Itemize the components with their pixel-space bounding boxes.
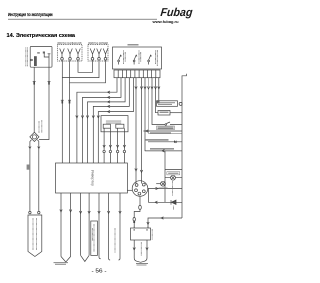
svg-text:ОБМОТКА ЗАРЯДКИ: ОБМОТКА ЗАРЯДКИ <box>88 41 108 45</box>
svg-text:Инструкция по эксплуатации: Инструкция по эксплуатации <box>8 12 53 17</box>
svg-text:Fubag: Fubag <box>160 7 193 19</box>
svg-text:14. Электрическая схема: 14. Электрическая схема <box>7 33 76 39</box>
svg-text:Инвертор: Инвертор <box>91 170 95 186</box>
svg-text:- 56 -: - 56 - <box>92 269 107 275</box>
svg-text:www.fubag.ru: www.fubag.ru <box>151 20 178 24</box>
svg-text:ОБМОТКА ОСНОВНАЯ 230В: ОБМОТКА ОСНОВНАЯ 230В <box>57 41 81 45</box>
